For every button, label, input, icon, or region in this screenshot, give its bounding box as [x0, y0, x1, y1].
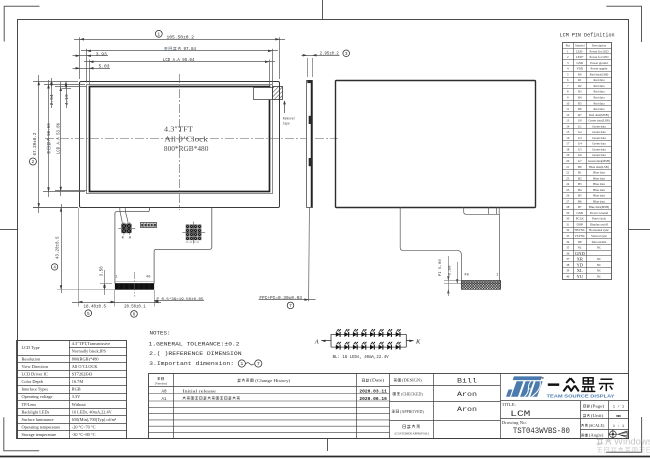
- dimension 2l: 67.20 extension lines: [33, 81, 78, 83]
- svg-text:A0: A0: [161, 390, 167, 394]
- svg-text:VSYNC: VSYNC: [575, 234, 586, 238]
- centering mark right: [628, 229, 650, 231]
- svg-text:B3: B3: [578, 182, 582, 186]
- svg-text:800(RGB)*480: 800(RGB)*480: [72, 356, 99, 361]
- dimension 3 line 2.95: [301, 55, 339, 57]
- svg-text:Green data: Green data: [592, 147, 606, 151]
- svg-text:Power Ground: Power Ground: [590, 211, 609, 215]
- svg-text:G6: G6: [578, 153, 582, 157]
- extension line FPC bottom left: [57, 289, 115, 291]
- pin table grid: [562, 43, 611, 280]
- svg-text:B6: B6: [578, 199, 582, 203]
- svg-text:(Change History): (Change History): [255, 378, 291, 383]
- svg-text:K: K: [415, 338, 421, 345]
- svg-text:Red data: Red data: [594, 96, 606, 100]
- side view body: [307, 81, 313, 208]
- back view FPC attach tab: [464, 207, 500, 214]
- front view active area (thick): [90, 87, 270, 192]
- svg-text:BL: 16 LEDs, 40mA,22.4V: BL: 16 LEDs, 40mA,22.4V: [333, 355, 389, 360]
- svg-text:XR: XR: [577, 257, 584, 262]
- svg-text:Resolution: Resolution: [22, 356, 41, 361]
- dimension 2.94 line and label: [51, 78, 53, 108]
- svg-text:Aron: Aron: [457, 391, 477, 398]
- windows activation watermark line 1: [597, 436, 650, 447]
- dimension PI 5.00 and 0.50 near connector: [444, 280, 461, 282]
- remover tape hatched area: [273, 87, 283, 100]
- svg-text:1: 1: [240, 361, 243, 367]
- backlight wire A: [125, 208, 128, 224]
- svg-text:R7: R7: [578, 113, 582, 117]
- svg-text:Blue data: Blue data: [593, 194, 605, 198]
- svg-text:37: 37: [566, 257, 570, 261]
- dimension 2: top polarizer 97.84 extension lines: [86, 49, 88, 83]
- dimension 5: 18.40 line: [72, 302, 115, 304]
- dimension: AA height 53.86 extension lines: [55, 86, 87, 88]
- svg-text:mm: mm: [616, 415, 621, 419]
- svg-text:3: 3: [345, 52, 348, 57]
- svg-text:Color Depth: Color Depth: [22, 379, 44, 384]
- svg-text:Remover: Remover: [283, 117, 296, 122]
- svg-text:LCD Type: LCD Type: [22, 345, 40, 350]
- FPC bend line: [115, 281, 154, 283]
- dimension 1: 105.50 line: [74, 39, 285, 41]
- windows activation watermark line 2: [597, 447, 650, 452]
- svg-text:B7: B7: [578, 205, 582, 209]
- svg-text:Green data(LSB): Green data(LSB): [588, 119, 609, 123]
- extension line module bottom to left: [33, 207, 78, 209]
- svg-text:LCD A.A 53.86: LCD A.A 53.86: [57, 123, 61, 154]
- svg-text:18.40±0.5: 18.40±0.5: [84, 305, 107, 310]
- dimension 3: LCD A.A 95.04 extension lines: [89, 60, 91, 86]
- svg-text:Red data: Red data: [594, 101, 606, 105]
- side view dark segment upper: [309, 116, 312, 124]
- dimension 2 line: [81, 50, 278, 52]
- svg-text:2: 2: [32, 159, 35, 165]
- svg-text:Vertical sync: Vertical sync: [591, 234, 608, 238]
- svg-text:P1 A1 P2 A2: P1 A1 P2 A2: [186, 241, 199, 244]
- dimension 3 line: [84, 61, 275, 63]
- svg-text:TEAM SOURCE DISPLAY: TEAM SOURCE DISPLAY: [547, 394, 615, 399]
- svg-text:All O’CLOCK: All O’CLOCK: [72, 364, 99, 369]
- dimension 53.86 line: [60, 82, 62, 196]
- backlight solder pads K/A block: [118, 222, 135, 235]
- svg-text:Storage temperature: Storage temperature: [22, 432, 57, 437]
- svg-text:7: 7: [257, 361, 260, 367]
- svg-text:XL: XL: [577, 268, 583, 273]
- back view FPC tail outline: [400, 207, 461, 280]
- FPC tail centerline: [134, 272, 136, 297]
- svg-text:LCM PIN Definition: LCM PIN Definition: [560, 32, 615, 39]
- svg-text:Green data: Green data: [592, 124, 606, 128]
- backlight circuit lead right with arrow: [406, 340, 413, 342]
- back view outline: [336, 81, 536, 208]
- svg-text:97.84: 97.84: [184, 47, 197, 52]
- dimension pitch P 0.5*39=19.50: [154, 300, 204, 302]
- pin table rows text: [566, 49, 610, 279]
- svg-text:G0: G0: [578, 119, 582, 123]
- svg-text:35: 35: [566, 246, 570, 250]
- svg-text:33: 33: [566, 234, 570, 238]
- svg-text:20: 20: [566, 159, 570, 163]
- side view FPC tail line: [308, 207, 311, 301]
- side view dark segment lower: [309, 158, 312, 166]
- svg-text:6: 6: [133, 313, 136, 318]
- svg-text:36: 36: [566, 251, 570, 255]
- svg-text:1 / 1: 1 / 1: [613, 404, 625, 409]
- svg-text:3.93: 3.93: [96, 52, 107, 57]
- specification table grid: [17, 340, 127, 439]
- svg-text:3.50: 3.50: [101, 266, 105, 277]
- svg-text:Red data: Red data: [594, 84, 606, 88]
- svg-text:30: 30: [566, 217, 570, 221]
- FPC connector contact bar (black): [115, 284, 154, 290]
- svg-text:Power for LED: Power for LED: [589, 55, 609, 59]
- svg-text:Blue data: Blue data: [593, 176, 605, 180]
- front view module outline: [80, 82, 280, 208]
- svg-text:7: 7: [289, 304, 292, 309]
- svg-text:TP/Lens: TP/Lens: [22, 402, 37, 407]
- svg-text:(Unit): (Unit): [591, 414, 605, 418]
- svg-text:HSYNC: HSYNC: [575, 228, 586, 232]
- svg-text:NOTES:: NOTES:: [150, 330, 171, 337]
- svg-text:Green data: Green data: [592, 136, 606, 140]
- svg-text:32: 32: [566, 228, 570, 232]
- svg-text:R5: R5: [578, 101, 582, 105]
- back view connector crosshatched: [461, 281, 500, 290]
- svg-text:G5: G5: [578, 147, 582, 151]
- svg-text:2020.06.16: 2020.06.16: [359, 396, 387, 402]
- front view top polarizer outline: [87, 85, 273, 194]
- component pad grid 4x4 on FPC: [182, 222, 205, 244]
- svg-text:11: 11: [566, 107, 569, 111]
- approval labels: [394, 379, 401, 382]
- svg-text:R0: R0: [578, 72, 582, 76]
- svg-text:39: 39: [566, 269, 570, 273]
- svg-text:23: 23: [566, 176, 570, 180]
- svg-text:Blue data: Blue data: [593, 171, 605, 175]
- svg-text:Blue data: Blue data: [593, 188, 605, 192]
- approval column lines: [433, 373, 435, 439]
- revision header text: [157, 377, 163, 380]
- svg-text:Green data: Green data: [592, 130, 606, 134]
- svg-text:21: 21: [566, 165, 570, 169]
- svg-text:105.50±0.2: 105.50±0.2: [167, 35, 195, 41]
- svg-text:13: 13: [566, 119, 570, 123]
- svg-text:Horizontal sync: Horizontal sync: [589, 228, 609, 232]
- small component outline on FPC: [141, 223, 157, 228]
- svg-text:FPC+PI=0.30±0.03: FPC+PI=0.30±0.03: [259, 297, 302, 301]
- svg-text:Drawing No.: Drawing No.: [502, 421, 527, 425]
- svg-text:5: 5: [87, 312, 90, 317]
- svg-text:GND: GND: [576, 61, 583, 65]
- svg-text:Interface Types: Interface Types: [22, 387, 49, 392]
- svg-text:R3: R3: [578, 90, 582, 94]
- svg-text:R1: R1: [578, 78, 582, 82]
- svg-text:Pin: Pin: [566, 44, 571, 48]
- svg-text:TITLE:: TITLE:: [502, 403, 516, 407]
- first angle projection symbol: [608, 430, 627, 439]
- svg-text:-30 °C~80 °C: -30 °C~80 °C: [72, 432, 96, 437]
- front view vertical centerline: [179, 74, 181, 210]
- svg-text:67.20±0.2: 67.20±0.2: [33, 132, 38, 155]
- svg-text:Backlight LEDs: Backlight LEDs: [22, 409, 50, 414]
- svg-text:Blue data(LSB): Blue data(LSB): [589, 165, 609, 169]
- svg-text:3.Important dimension:: 3.Important dimension:: [149, 360, 234, 367]
- svg-text:28: 28: [566, 205, 570, 209]
- svg-text:(CHECKED): (CHECKED): [401, 392, 423, 396]
- svg-text:(Version): (Version): [155, 381, 167, 385]
- logo chinese name: [548, 378, 614, 392]
- module left edge extension to dim 5: [78, 208, 80, 307]
- svg-text:800*RGB*480: 800*RGB*480: [164, 144, 209, 153]
- svg-text:Data enable: Data enable: [592, 240, 607, 244]
- svg-text:27: 27: [566, 199, 570, 203]
- svg-text:2.94: 2.94: [51, 94, 55, 106]
- svg-text:(APPROVED): (APPROVED): [400, 410, 424, 414]
- svg-text:16.7M: 16.7M: [72, 379, 84, 384]
- svg-text:PCLK: PCLK: [576, 217, 585, 221]
- svg-text:DE: DE: [578, 240, 582, 244]
- svg-text:29: 29: [566, 211, 570, 215]
- dimension 6: 20.50 line: [108, 302, 161, 304]
- svg-text:3.3V: 3.3V: [72, 394, 81, 399]
- dimension 3.93 line and label: [73, 55, 109, 57]
- svg-text:22: 22: [566, 171, 570, 175]
- dimension 4.19 line and label: [66, 84, 68, 108]
- svg-text:1 : 1: 1 : 1: [613, 425, 625, 429]
- svg-text:A1: A1: [161, 398, 167, 402]
- svg-text:Aron: Aron: [457, 406, 477, 413]
- svg-text:TM: TM: [540, 377, 544, 380]
- corner mark top-left: [4, 6, 39, 41]
- svg-text:Green data: Green data: [592, 153, 606, 157]
- backlight wire K: [120, 208, 123, 224]
- svg-text:NC: NC: [597, 274, 601, 278]
- dimension: polarizer height 56.66 extension lines: [44, 84, 85, 86]
- svg-text:(Page): (Page): [591, 404, 606, 408]
- svg-text:VDD: VDD: [576, 67, 583, 71]
- svg-text:(CUSTOMER APPROVAL): (CUSTOMER APPROVAL): [395, 432, 429, 436]
- svg-text:B2: B2: [578, 176, 582, 180]
- backlight circuit loop: [331, 334, 406, 347]
- svg-text:2020.03.11: 2020.03.11: [359, 389, 387, 395]
- svg-text:18: 18: [566, 147, 570, 151]
- svg-text:(Angle): (Angle): [589, 434, 605, 438]
- svg-text:PI 5.00: PI 5.00: [439, 258, 443, 276]
- remover tape leader arrow: [284, 102, 286, 114]
- svg-text:LED+: LED+: [576, 55, 584, 59]
- svg-text:Initial release: Initial release: [182, 389, 216, 393]
- dimension 7: FPC+PI=0.30 line: [259, 299, 316, 301]
- svg-text:G2: G2: [578, 130, 582, 134]
- svg-text:G1: G1: [578, 124, 582, 128]
- svg-text:43.20±0.5: 43.20±0.5: [57, 236, 61, 259]
- note 3 circled 1 to circled 7: [238, 360, 245, 367]
- svg-text:Blue data: Blue data: [593, 182, 605, 186]
- svg-text:14: 14: [566, 124, 570, 128]
- svg-text:TST043WVBS-80: TST043WVBS-80: [513, 427, 570, 436]
- centering mark top: [322, 0, 324, 20]
- svg-text:15: 15: [566, 130, 570, 134]
- dimension 4: 43.20 line vertical with circled 4: [61, 204, 63, 293]
- svg-text:24: 24: [566, 182, 570, 186]
- dimension 3: thickness 2.95 extension lines: [307, 58, 309, 77]
- svg-text:YU: YU: [576, 274, 583, 279]
- corner mark top-right: [606, 6, 641, 42]
- svg-text:20.50±0.1: 20.50±0.1: [124, 305, 146, 310]
- svg-text:LCM: LCM: [510, 410, 530, 419]
- svg-text:G7: G7: [578, 159, 582, 163]
- title cell: [500, 418, 628, 420]
- svg-text:Without: Without: [72, 402, 87, 407]
- svg-text:G3: G3: [578, 136, 582, 140]
- dimension 1: 105.50 extension lines: [79, 37, 81, 79]
- svg-text:YD: YD: [576, 262, 583, 267]
- svg-text:16: 16: [566, 136, 570, 140]
- svg-text:26: 26: [566, 194, 570, 198]
- revision rows lines: [149, 393, 390, 395]
- TSD logo graphic: [506, 376, 543, 396]
- svg-text:NC: NC: [597, 257, 601, 261]
- svg-text:Operating voltage: Operating voltage: [22, 394, 53, 399]
- svg-text:38: 38: [566, 263, 570, 267]
- svg-text:LCD Driver IC: LCD Driver IC: [22, 371, 48, 376]
- svg-text:B5: B5: [578, 194, 582, 198]
- svg-text:NC: NC: [597, 246, 601, 250]
- backlight circuit lead left with arrow: [321, 340, 331, 342]
- svg-text:Power ground: Power ground: [590, 61, 608, 65]
- svg-text:GND: GND: [576, 211, 583, 215]
- corner mark bottom-right: [606, 417, 642, 452]
- svg-text:12: 12: [566, 113, 570, 117]
- logo cell line: [500, 373, 502, 439]
- dimension 3.50 vertical: [104, 270, 106, 295]
- svg-text:Red data(MSB): Red data(MSB): [589, 113, 609, 117]
- svg-text:Symbol: Symbol: [575, 44, 585, 48]
- svg-text:Blue data: Blue data: [593, 199, 605, 203]
- svg-text:NC: NC: [597, 263, 601, 267]
- svg-text:Green data: Green data: [592, 142, 606, 146]
- svg-text:2.( )REFERENCE DIMENSION: 2.( )REFERENCE DIMENSION: [149, 350, 242, 357]
- svg-text:B1: B1: [578, 171, 582, 175]
- svg-text:40: 40: [146, 276, 151, 280]
- svg-text:GND: GND: [575, 251, 586, 256]
- svg-text:5.03: 5.03: [99, 65, 110, 70]
- svg-text:LCD A.A 95.04: LCD A.A 95.04: [163, 58, 195, 63]
- svg-text:56.66: 56.66: [48, 123, 52, 136]
- side view top dark cap: [307, 80, 312, 83]
- corner mark bottom-left: [4, 417, 39, 451]
- dimension 2l: 67.20 line vertical: [38, 75, 40, 213]
- centering mark left: [0, 229, 17, 231]
- page unit scale angle cells: [608, 401, 610, 439]
- svg-text:B0: B0: [578, 165, 582, 169]
- svg-text:-20 °C~70 °C: -20 °C~70 °C: [72, 425, 96, 430]
- dimension 1 label 105.50+-0.2 with circled 1: [155, 30, 162, 37]
- sheet bottom edge line: [0, 456, 650, 458]
- dimension 5.03 line and label: [73, 68, 111, 70]
- svg-text:DISP: DISP: [576, 222, 583, 226]
- svg-text:Green data(MSB): Green data(MSB): [588, 159, 610, 163]
- svg-text:40: 40: [566, 274, 570, 278]
- svg-text:ST7262E43: ST7262E43: [72, 371, 93, 376]
- svg-text:19: 19: [566, 153, 570, 157]
- svg-text:Pixel clock: Pixel clock: [592, 217, 606, 221]
- revision table header row line: [149, 386, 390, 388]
- revision table verticals: [173, 373, 175, 439]
- svg-text:P 0.5*39=19.50±0.05: P 0.5*39=19.50±0.05: [157, 297, 205, 302]
- svg-text:4.19: 4.19: [66, 94, 70, 106]
- front view horizontal centerline: [45, 138, 338, 140]
- svg-text:Windows: Windows: [614, 436, 650, 447]
- svg-text:(Date): (Date): [370, 379, 385, 383]
- svg-text:Bill: Bill: [457, 377, 477, 384]
- svg-text:R4: R4: [578, 96, 582, 100]
- remover tape clear window rect: [254, 88, 273, 100]
- svg-text:2.95±0.2: 2.95±0.2: [320, 51, 339, 56]
- dimension 56.66 line: [48, 80, 50, 197]
- svg-text:Red data: Red data: [594, 107, 606, 111]
- svg-text:View Direction: View Direction: [22, 364, 49, 369]
- svg-text:NC: NC: [597, 269, 601, 273]
- svg-text:G4: G4: [578, 142, 582, 146]
- svg-text:10: 10: [566, 101, 570, 105]
- svg-text:0.50: 0.50: [449, 265, 453, 276]
- centering mark bottom: [327, 439, 329, 451]
- svg-text:(SCALE): (SCALE): [589, 424, 605, 428]
- dimension 2 label: [164, 47, 181, 50]
- svg-text:NC: NC: [578, 246, 582, 250]
- svg-text:40: 40: [464, 273, 469, 277]
- FPC tail edges extensions down: [114, 290, 116, 307]
- svg-text:1: 1: [157, 31, 160, 37]
- svg-text:1.GENERAL TOLERANCE:±0.2: 1.GENERAL TOLERANCE:±0.2: [149, 340, 240, 347]
- svg-text:A: A: [314, 338, 319, 345]
- svg-text:Red data: Red data: [594, 90, 606, 94]
- svg-text:R6: R6: [578, 107, 582, 111]
- svg-text:Operating temperature: Operating temperature: [22, 425, 61, 430]
- svg-text:(DESIGN): (DESIGN): [402, 379, 422, 383]
- backlight LEDs top row: [336, 329, 401, 337]
- FPC outline front view: [115, 208, 212, 284]
- svg-text:34: 34: [566, 240, 570, 244]
- dimension 56.66 label: [47, 123, 52, 154]
- svg-text:Description: Description: [592, 44, 607, 48]
- svg-text:All 0’Clock: All 0’Clock: [164, 134, 208, 143]
- title block outer rect: [149, 374, 629, 439]
- svg-text:31: 31: [566, 222, 570, 226]
- svg-text:RGB: RGB: [72, 387, 81, 392]
- specification table text: [22, 341, 117, 437]
- svg-text:LED-: LED-: [576, 49, 583, 53]
- svg-text:Blue data(MSB): Blue data(MSB): [589, 205, 609, 209]
- svg-text:R2: R2: [578, 84, 582, 88]
- side view thick right edge: [311, 80, 313, 207]
- svg-text:17: 17: [566, 142, 570, 146]
- svg-text:Red data(LSB): Red data(LSB): [590, 72, 609, 76]
- svg-text:4.3″TFT: 4.3″TFT: [164, 125, 193, 134]
- svg-text:tape: tape: [283, 122, 290, 126]
- backlight LEDs bottom row: [336, 342, 401, 350]
- svg-text:Red data: Red data: [594, 78, 606, 82]
- svg-text:Power supply: Power supply: [591, 67, 608, 71]
- svg-text:Surface luminance: Surface luminance: [22, 417, 54, 422]
- svg-text:25: 25: [566, 188, 570, 192]
- svg-text:Display on/off: Display on/off: [590, 222, 609, 226]
- svg-text:Power for LED: Power for LED: [589, 49, 609, 53]
- svg-text:B4: B4: [578, 188, 582, 192]
